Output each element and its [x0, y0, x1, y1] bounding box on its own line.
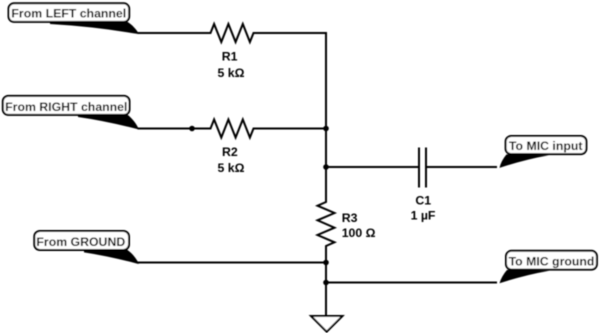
svg-text:To MIC input: To MIC input [509, 139, 583, 153]
svg-text:From GROUND: From GROUND [36, 235, 125, 249]
svg-text:C1: C1 [415, 193, 431, 207]
svg-text:100 Ω: 100 Ω [342, 226, 376, 240]
svg-text:5 kΩ: 5 kΩ [218, 161, 245, 175]
svg-text:From RIGHT channel: From RIGHT channel [5, 100, 127, 114]
svg-text:R1: R1 [222, 49, 238, 63]
svg-text:To MIC ground: To MIC ground [509, 254, 595, 268]
svg-text:From LEFT channel: From LEFT channel [11, 7, 126, 21]
svg-text:1 µF: 1 µF [411, 208, 436, 222]
svg-text:5 kΩ: 5 kΩ [218, 66, 245, 80]
svg-text:R2: R2 [222, 145, 238, 159]
svg-text:R3: R3 [342, 211, 358, 225]
